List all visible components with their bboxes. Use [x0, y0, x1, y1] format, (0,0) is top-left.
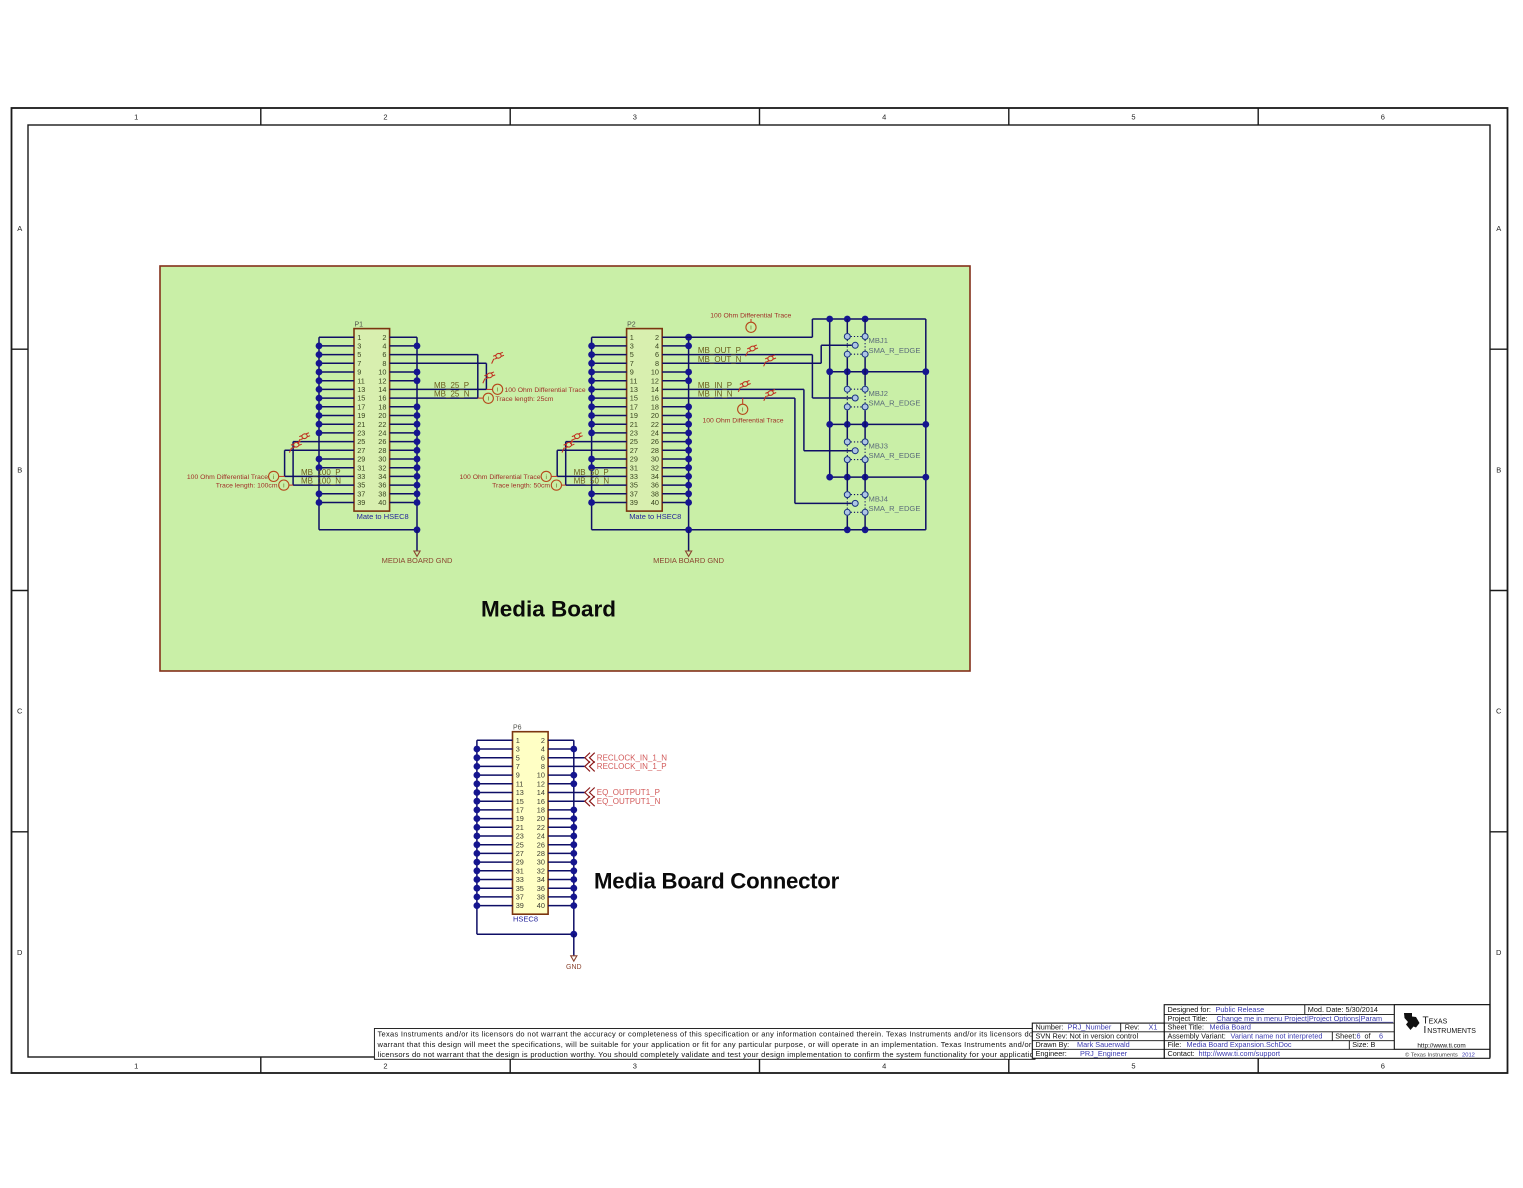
frame row letters A-D left and right [17, 224, 1502, 957]
svg-text:i: i [488, 396, 489, 403]
svg-text:10: 10 [378, 368, 386, 377]
differential pair marker on MB_25 pair upper [489, 352, 505, 364]
P6 left bus junction dots [474, 746, 481, 909]
svg-text:Contact:: Contact: [1168, 1049, 1195, 1058]
svg-text:37: 37 [630, 489, 638, 498]
green Media Board sheet rectangle [160, 266, 970, 671]
svg-text:X1: X1 [1149, 1023, 1158, 1032]
net MB_25_N wire [390, 397, 478, 399]
svg-text:32: 32 [651, 463, 659, 472]
svg-text:Trace length: 50cm: Trace length: 50cm [492, 483, 550, 490]
svg-text:6: 6 [655, 350, 659, 359]
svg-text:SMA_R_EDGE: SMA_R_EDGE [869, 346, 921, 355]
svg-text:5: 5 [516, 753, 520, 762]
svg-text:MBJ4: MBJ4 [869, 494, 888, 503]
svg-text:MB_100_N: MB_100_N [301, 477, 341, 486]
svg-text:P1: P1 [355, 321, 364, 328]
svg-text:i: i [273, 474, 274, 481]
P2 pin numbers 1-40 [630, 333, 659, 507]
wire loopback vertical pin25-pin35 (MB_50_N) [565, 442, 567, 486]
SMA jack MBJ3 SMA_R_EDGE [844, 424, 868, 477]
svg-text:MBJ2: MBJ2 [869, 389, 888, 398]
svg-text:34: 34 [378, 472, 386, 481]
svg-text:2: 2 [541, 736, 545, 745]
differential pair marker MB_OUT_N [761, 354, 777, 366]
svg-text:10: 10 [537, 771, 545, 780]
svg-text:C: C [17, 707, 23, 716]
svg-text:© Texas Instruments: © Texas Instruments [1405, 1051, 1458, 1058]
svg-text:100 Ohm Differential Trace: 100 Ohm Differential Trace [710, 312, 791, 319]
svg-text:37: 37 [357, 489, 365, 498]
disclaimer text box [374, 1029, 1047, 1060]
svg-text:Public Release: Public Release [1216, 1005, 1265, 1014]
svg-text:EQ_OUTPUT1_P: EQ_OUTPUT1_P [597, 788, 660, 797]
svg-text:A: A [1496, 224, 1501, 233]
svg-text:i: i [283, 483, 284, 490]
svg-text:i: i [742, 407, 743, 414]
svg-text:15: 15 [630, 394, 638, 403]
svg-text:MB_OUT_P: MB_OUT_P [698, 346, 741, 355]
SMA right ground rail vertical [925, 319, 927, 530]
wire pin25 to loopback (MB_100_N) [293, 441, 354, 443]
svg-text:Mate to HSEC8: Mate to HSEC8 [357, 512, 409, 521]
svg-text:MB_IN_P: MB_IN_P [698, 381, 732, 390]
svg-text:i: i [556, 483, 557, 490]
svg-text:8: 8 [541, 762, 545, 771]
P6 right bus junction dots [570, 746, 577, 909]
SMA jack MBJ2 SMA_R_EDGE [844, 372, 868, 425]
differential pair marker lower (MB_50_P) [559, 441, 575, 453]
svg-text:11: 11 [630, 376, 638, 385]
svg-text:3: 3 [516, 745, 520, 754]
svg-text:12: 12 [651, 376, 659, 385]
svg-text:Number:: Number: [1036, 1023, 1064, 1032]
MEDIA BOARD GND power symbol for P1 [414, 551, 420, 556]
SMA jack MBJ4 SMA_R_EDGE [844, 477, 868, 530]
svg-text:Mate to HSEC8: Mate to HSEC8 [629, 512, 681, 521]
svg-text:Media Board: Media Board [481, 597, 616, 622]
svg-text:34: 34 [537, 875, 545, 884]
P1 left bus wire [318, 337, 320, 530]
connector P6 body [513, 732, 549, 915]
svg-text:23: 23 [357, 429, 365, 438]
svg-text:24: 24 [378, 429, 386, 438]
svg-text:29: 29 [357, 455, 365, 464]
svg-text:10: 10 [651, 368, 659, 377]
svg-text:Texas Instruments and/or its l: Texas Instruments and/or its licensors d… [378, 1030, 1048, 1039]
svg-text:29: 29 [516, 858, 524, 867]
svg-text:1: 1 [357, 333, 361, 342]
directive circle i - 100 Ohm Differential Trace (IN pair) [742, 398, 744, 404]
svg-text:Engineer:: Engineer: [1036, 1049, 1067, 1058]
P2 right pin wires [662, 346, 688, 503]
svg-text:19: 19 [357, 411, 365, 420]
P1 ground stub wire [416, 530, 418, 551]
svg-text:37: 37 [516, 893, 524, 902]
svg-text:38: 38 [537, 893, 545, 902]
svg-text:36: 36 [537, 884, 545, 893]
wire loopback vertical pin6-pin16 [477, 355, 479, 399]
svg-text:14: 14 [537, 788, 545, 797]
svg-text:40: 40 [378, 498, 386, 507]
P2 ground junction [685, 526, 692, 533]
svg-text:32: 32 [537, 866, 545, 875]
wire loopback vertical pin27-pin33 (MB_50_P) [556, 450, 558, 476]
svg-text:12: 12 [378, 376, 386, 385]
GND power symbol [571, 956, 577, 961]
svg-text:5: 5 [630, 350, 634, 359]
P2 right bus wire [688, 337, 690, 530]
svg-text:http://www.ti.com/support: http://www.ti.com/support [1199, 1049, 1281, 1058]
P2 ground stub wire [688, 530, 690, 551]
svg-text:i: i [497, 387, 498, 394]
wire P1 pin8 to loopback [390, 362, 487, 364]
svg-text:20: 20 [537, 814, 545, 823]
svg-text:6: 6 [1381, 113, 1385, 122]
directive circle i - 100 Ohm (MB_25) [486, 388, 492, 390]
differential pair marker lower (MB_100_P) [287, 441, 303, 453]
svg-text:http://www.ti.com: http://www.ti.com [1417, 1043, 1465, 1050]
wire loopback vertical pin25-pin35 (MB_100_N) [292, 442, 294, 486]
svg-text:20: 20 [651, 411, 659, 420]
svg-text:31: 31 [516, 866, 524, 875]
svg-text:6: 6 [1379, 1031, 1383, 1040]
svg-text:5: 5 [357, 350, 361, 359]
P1 right bus junction dots [414, 343, 421, 506]
svg-text:6: 6 [541, 753, 545, 762]
svg-text:22: 22 [651, 420, 659, 429]
svg-text:24: 24 [537, 832, 545, 841]
svg-text:GND: GND [566, 964, 582, 971]
SMA ground rail 2 [830, 371, 926, 373]
net MB_100_P wire [285, 475, 354, 477]
svg-text:19: 19 [516, 814, 524, 823]
net MB_50_P wire [557, 475, 626, 477]
net MB_IN_P wire [662, 388, 804, 390]
svg-text:Designed for:: Designed for: [1168, 1005, 1211, 1014]
svg-text:9: 9 [516, 771, 520, 780]
svg-text:32: 32 [378, 463, 386, 472]
MEDIA BOARD GND power symbol for P2 [686, 551, 692, 556]
svg-text:4: 4 [541, 745, 545, 754]
P6 ground junction [570, 931, 577, 938]
svg-text:1: 1 [516, 736, 520, 745]
svg-text:4: 4 [655, 342, 659, 351]
title block row Project Title [1168, 1014, 1394, 1023]
port RECLOCK_IN_1_P wire [548, 765, 585, 767]
svg-text:9: 9 [630, 368, 634, 377]
svg-text:Project Title:: Project Title: [1168, 1014, 1208, 1023]
svg-text:SMA_R_EDGE: SMA_R_EDGE [869, 399, 921, 408]
title block grid [1032, 1005, 1490, 1059]
svg-text:File:: File: [1168, 1040, 1182, 1049]
svg-text:14: 14 [651, 385, 659, 394]
svg-text:30: 30 [651, 455, 659, 464]
frame column numbers 1-6 top and bottom [134, 113, 1385, 1071]
svg-text:3: 3 [630, 342, 634, 351]
svg-text:21: 21 [357, 420, 365, 429]
svg-text:40: 40 [537, 901, 545, 910]
svg-text:3: 3 [357, 342, 361, 351]
svg-text:B: B [1496, 466, 1501, 475]
P6 pin numbers 1-40 [516, 736, 545, 910]
svg-text:17: 17 [357, 402, 365, 411]
wire loopback vertical pin27-pin33 (MB_100_P) [284, 450, 286, 476]
svg-text:13: 13 [630, 385, 638, 394]
svg-text:1: 1 [134, 113, 138, 122]
svg-text:6: 6 [382, 350, 386, 359]
P1 right bus wire [416, 337, 418, 530]
port RECLOCK_IN_1_N wire [548, 757, 585, 759]
svg-text:17: 17 [516, 806, 524, 815]
svg-text:22: 22 [537, 823, 545, 832]
svg-text:28: 28 [651, 446, 659, 455]
svg-text:31: 31 [630, 463, 638, 472]
directive circle i - 100 Ohm Differential Trace (OUT pair) [750, 319, 752, 322]
svg-text:4: 4 [382, 342, 386, 351]
svg-text:34: 34 [651, 472, 659, 481]
svg-text:MBJ3: MBJ3 [869, 442, 888, 451]
svg-text:Size: B: Size: B [1352, 1040, 1375, 1049]
svg-text:Mod. Date: 5/30/2014: Mod. Date: 5/30/2014 [1308, 1005, 1378, 1014]
svg-text:Rev:: Rev: [1125, 1023, 1140, 1032]
port EQ_OUTPUT1_N chevron symbol [585, 796, 595, 806]
svg-text:4: 4 [882, 113, 886, 122]
P2/SMA ground bottom rail [592, 529, 926, 531]
svg-text:9: 9 [357, 368, 361, 377]
port EQ_OUTPUT1_P wire [548, 792, 585, 794]
svg-text:39: 39 [357, 498, 365, 507]
svg-text:Mark Sauerwald: Mark Sauerwald [1077, 1040, 1130, 1049]
P1 ground junction [414, 526, 421, 533]
svg-text:38: 38 [378, 489, 386, 498]
svg-text:24: 24 [651, 429, 659, 438]
svg-text:100 Ohm Differential Trace: 100 Ohm Differential Trace [505, 387, 586, 394]
svg-text:26: 26 [378, 437, 386, 446]
svg-text:RECLOCK_IN_1_N: RECLOCK_IN_1_N [597, 753, 667, 762]
P6 ground stub wire [573, 934, 575, 956]
svg-text:29: 29 [630, 455, 638, 464]
svg-text:40: 40 [651, 498, 659, 507]
svg-text:100 Ohm Differential Trace: 100 Ohm Differential Trace [187, 474, 268, 481]
svg-text:D: D [1496, 948, 1502, 957]
svg-text:licensors do not warrant that: licensors do not warrant that the design… [378, 1050, 1041, 1059]
SMA ground rail 4 [830, 476, 926, 478]
svg-text:SMA_R_EDGE: SMA_R_EDGE [869, 451, 921, 460]
svg-text:MB_OUT_N: MB_OUT_N [698, 355, 742, 364]
net MB_25_P wire [390, 388, 487, 390]
svg-text:8: 8 [382, 359, 386, 368]
P1 left pin wires [319, 337, 354, 502]
net MB_OUT_P wire [662, 354, 812, 356]
svg-text:28: 28 [537, 849, 545, 858]
svg-text:16: 16 [378, 394, 386, 403]
net MB_100_N wire [293, 484, 354, 486]
svg-text:4: 4 [882, 1062, 886, 1071]
svg-text:16: 16 [537, 797, 545, 806]
P1 pin numbers 1-40 [357, 333, 386, 507]
svg-text:18: 18 [651, 402, 659, 411]
svg-text:C: C [1496, 707, 1502, 716]
net MB_OUT_N wire [662, 362, 821, 364]
svg-text:PRJ_Number: PRJ_Number [1068, 1023, 1112, 1032]
svg-text:7: 7 [357, 359, 361, 368]
svg-text:25: 25 [630, 437, 638, 446]
svg-text:3: 3 [633, 1062, 637, 1071]
svg-text:35: 35 [630, 481, 638, 490]
differential pair marker MB_IN_N [761, 389, 777, 401]
svg-text:39: 39 [630, 498, 638, 507]
svg-text:21: 21 [630, 420, 638, 429]
svg-text:13: 13 [357, 385, 365, 394]
svg-text:i: i [545, 474, 546, 481]
wire P1 pin6 to loopback [390, 354, 478, 356]
port RECLOCK_IN_1_P chevron symbol [585, 761, 595, 771]
svg-text:3: 3 [633, 113, 637, 122]
svg-text:I: I [1424, 1025, 1427, 1036]
svg-text:EXAS: EXAS [1429, 1019, 1448, 1026]
svg-text:MB_25_P: MB_25_P [434, 381, 469, 390]
differential pair marker upper (MB_100_P) [295, 432, 311, 444]
SMA ground rail 1 [812, 318, 925, 320]
svg-text:33: 33 [516, 875, 524, 884]
svg-text:P2: P2 [627, 321, 636, 328]
P1 right pin wires [390, 337, 417, 502]
copyright Texas Instruments 2012 [1405, 1051, 1475, 1058]
wire P2 pin2 to ground rail [662, 336, 812, 338]
svg-text:7: 7 [630, 359, 634, 368]
svg-text:5: 5 [1131, 1062, 1135, 1071]
svg-text:36: 36 [651, 481, 659, 490]
svg-text:25: 25 [516, 840, 524, 849]
svg-text:2: 2 [383, 1062, 387, 1071]
svg-text:B: B [17, 466, 22, 475]
svg-text:28: 28 [378, 446, 386, 455]
svg-text:26: 26 [537, 840, 545, 849]
svg-text:MEDIA BOARD GND: MEDIA BOARD GND [382, 556, 453, 565]
svg-text:13: 13 [516, 788, 524, 797]
directive circle i - trace length (MB_50_N) [562, 484, 566, 486]
P6 left bus wire [476, 740, 478, 934]
svg-text:23: 23 [516, 832, 524, 841]
svg-text:100 Ohm Differential Trace: 100 Ohm Differential Trace [459, 474, 540, 481]
differential pair marker upper (MB_50_P) [568, 432, 584, 444]
svg-text:21: 21 [516, 823, 524, 832]
svg-text:MB_50_P: MB_50_P [574, 468, 609, 477]
svg-text:6: 6 [1381, 1062, 1385, 1071]
P1 left bus junction dots [316, 343, 323, 506]
svg-text:2012: 2012 [1462, 1052, 1475, 1058]
svg-text:31: 31 [357, 463, 365, 472]
svg-text:MB_50_N: MB_50_N [574, 477, 610, 486]
port EQ_OUTPUT1_P chevron symbol [585, 788, 595, 798]
svg-text:HSEC8: HSEC8 [513, 915, 538, 924]
port RECLOCK_IN_1_N chevron symbol [585, 753, 595, 763]
directive circle i - 100 Ohm (MB_50_P) [551, 475, 557, 477]
net MB_IN_N wire [662, 397, 795, 399]
svg-text:MB_100_P: MB_100_P [301, 468, 341, 477]
svg-text:SMA_R_EDGE: SMA_R_EDGE [869, 504, 921, 513]
P2 left bus junction dots [588, 343, 595, 506]
svg-text:i: i [750, 325, 751, 332]
P6 right pin wires [548, 740, 574, 905]
P6 left pin wires [477, 740, 513, 905]
svg-text:P6: P6 [513, 725, 522, 732]
svg-text:14: 14 [378, 385, 386, 394]
differential pair marker MB_IN_P [736, 380, 752, 392]
Texas Instruments logo [1404, 1013, 1476, 1050]
P1 ground bottom wire [319, 529, 417, 531]
svg-text:warrant that this design will: warrant that this design will meet the s… [377, 1040, 1043, 1049]
svg-text:18: 18 [537, 806, 545, 815]
connector P1 body [354, 329, 390, 512]
svg-text:18: 18 [378, 402, 386, 411]
svg-text:27: 27 [516, 849, 524, 858]
wire pin27 to loopback (MB_50_P) [557, 449, 626, 451]
svg-text:RECLOCK_IN_1_P: RECLOCK_IN_1_P [597, 762, 667, 771]
directive circle i - trace length (MB_100_N) [289, 484, 293, 486]
svg-text:15: 15 [357, 394, 365, 403]
directive circle i - 100 Ohm (MB_100_P) [279, 475, 285, 477]
svg-text:20: 20 [378, 411, 386, 420]
differential pair marker on MB_25 pair lower [480, 371, 496, 383]
svg-text:NSTRUMENTS: NSTRUMENTS [1427, 1028, 1476, 1035]
svg-text:2: 2 [382, 333, 386, 342]
svg-text:8: 8 [655, 359, 659, 368]
svg-text:33: 33 [630, 472, 638, 481]
svg-text:35: 35 [516, 884, 524, 893]
SMA ground rail junction dots [826, 316, 929, 534]
SMA jack MBJ1 SMA_R_EDGE [844, 319, 868, 372]
svg-text:39: 39 [516, 901, 524, 910]
svg-text:17: 17 [630, 402, 638, 411]
port EQ_OUTPUT1_N wire [548, 800, 585, 802]
SMA left ground vertical [829, 319, 831, 477]
svg-text:16: 16 [651, 394, 659, 403]
svg-text:33: 33 [357, 472, 365, 481]
svg-text:MB_25_N: MB_25_N [434, 390, 470, 399]
svg-text:Media Board Connector: Media Board Connector [594, 869, 840, 894]
svg-text:11: 11 [357, 376, 365, 385]
svg-text:MBJ1: MBJ1 [869, 336, 888, 345]
svg-text:12: 12 [537, 779, 545, 788]
svg-text:35: 35 [357, 481, 365, 490]
svg-text:A: A [17, 224, 22, 233]
net MB_50_N wire [566, 484, 627, 486]
P2 left pin wires [592, 337, 627, 502]
svg-text:27: 27 [357, 446, 365, 455]
svg-text:22: 22 [378, 420, 386, 429]
svg-text:26: 26 [651, 437, 659, 446]
P2 right bus junction dots [685, 334, 692, 506]
svg-text:2: 2 [655, 333, 659, 342]
svg-text:Media Board Expansion.SchDoc: Media Board Expansion.SchDoc [1187, 1040, 1292, 1049]
svg-text:EQ_OUTPUT1_N: EQ_OUTPUT1_N [597, 797, 661, 806]
wire pin25 to loopback (MB_50_N) [566, 441, 627, 443]
svg-text:25: 25 [357, 437, 365, 446]
svg-text:30: 30 [537, 858, 545, 867]
svg-text:23: 23 [630, 429, 638, 438]
svg-text:27: 27 [630, 446, 638, 455]
svg-text:D: D [17, 948, 23, 957]
svg-text:19: 19 [630, 411, 638, 420]
svg-text:Drawn By:: Drawn By: [1036, 1040, 1070, 1049]
svg-text:Media Board: Media Board [1210, 1023, 1251, 1032]
connector P2 body [627, 329, 663, 512]
SMA ground rail 3 [830, 423, 926, 425]
svg-text:100 Ohm Differential Trace: 100 Ohm Differential Trace [702, 417, 783, 424]
svg-text:Trace length: 25cm: Trace length: 25cm [496, 396, 554, 403]
